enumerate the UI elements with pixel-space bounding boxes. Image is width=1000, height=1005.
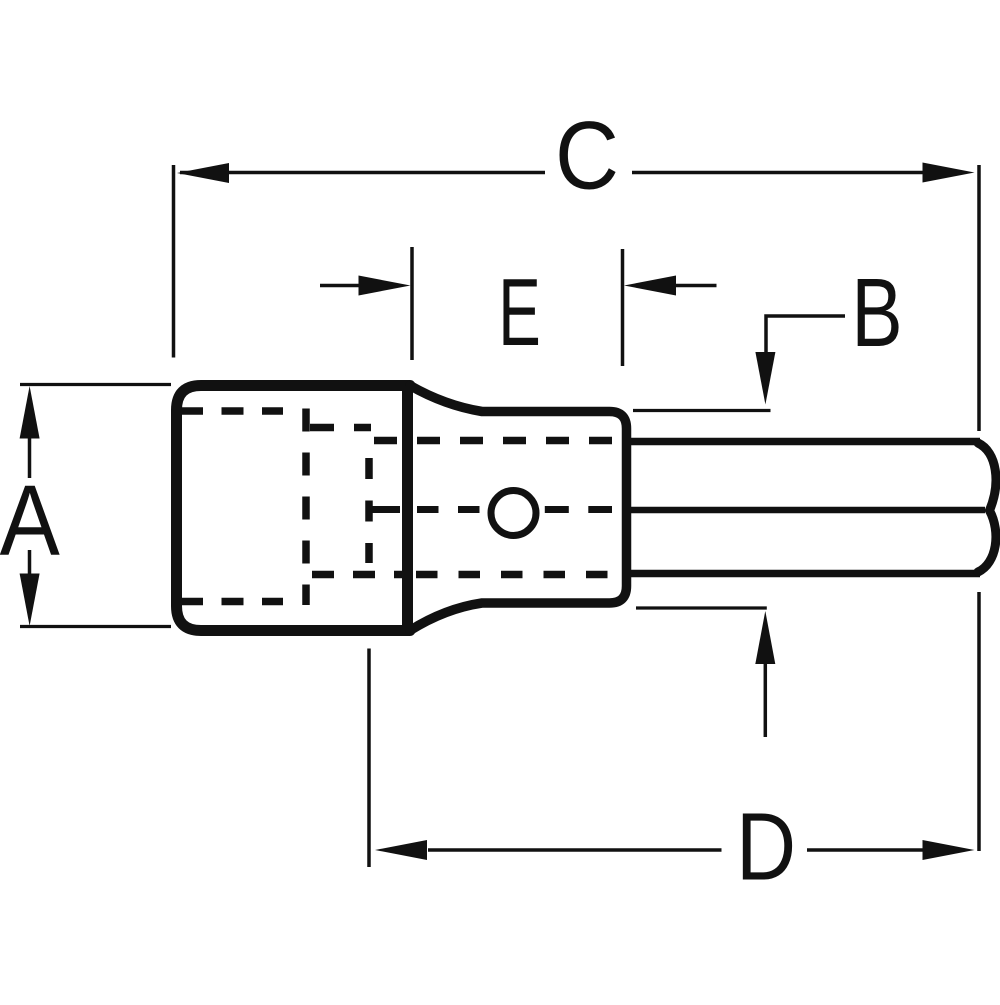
- label C: [555, 101, 619, 209]
- label A: [0, 465, 60, 576]
- hidden line: bore top: [310, 424, 371, 432]
- hex shaft top edge: [631, 438, 980, 446]
- label B: [851, 258, 902, 367]
- hidden line: square drive bottom: [181, 598, 283, 606]
- hidden line: square drive top: [181, 407, 283, 415]
- dimension C right arrowhead: [923, 163, 975, 183]
- dimension B bottom arrow (up): [755, 611, 775, 737]
- dimension D left arrowhead: [375, 840, 427, 860]
- dimension E left arrow: [320, 276, 411, 296]
- dimension A line: [28, 438, 32, 574]
- hidden line: bit bottom right part: [416, 571, 609, 579]
- dimension A top arrowhead: [20, 386, 40, 439]
- hidden line: bit bottom left part: [312, 571, 402, 579]
- svg-text:E: E: [498, 260, 541, 366]
- dimension E right arrow: [624, 276, 717, 296]
- hidden line: bit top: [374, 437, 612, 445]
- cross hole: [491, 491, 536, 536]
- dimension E extension line right: [621, 249, 625, 366]
- hidden line: square drive end vertical: [302, 409, 310, 606]
- hex shaft chamfered end: [978, 443, 996, 572]
- svg-text:D: D: [736, 793, 796, 899]
- dimension A bottom arrowhead: [20, 574, 40, 627]
- label D: [736, 793, 796, 899]
- hex shaft bottom edge: [631, 570, 980, 578]
- hidden line: bit end vertical: [365, 458, 373, 563]
- dimension A extension tick top: [20, 383, 171, 386]
- dimension A extension tick bottom: [20, 625, 171, 628]
- dimension C / D extension line right: [977, 165, 981, 851]
- dimension B top arrowhead (down): [755, 352, 775, 405]
- body right face edge: [402, 386, 413, 630]
- label E: [498, 260, 541, 366]
- dimension D extension line left: [367, 649, 371, 868]
- center line right of hole: [545, 506, 612, 513]
- dimension D right arrowhead: [923, 840, 975, 860]
- dimension C left arrowhead: [177, 163, 229, 183]
- hex shaft middle corner line: [631, 507, 985, 514]
- svg-text:C: C: [555, 101, 619, 209]
- dimension D line: [428, 848, 923, 852]
- dimension B leader line: [766, 316, 845, 352]
- socket body outline: [177, 386, 627, 631]
- dimension B top extension line: [633, 409, 771, 412]
- svg-text:A: A: [0, 465, 60, 576]
- svg-text:B: B: [851, 258, 902, 367]
- center line left of hole: [367, 506, 483, 513]
- dimension B bottom extension line: [636, 606, 767, 609]
- dimension C extension line left: [172, 165, 176, 358]
- dimension C line: [180, 171, 925, 175]
- dimension E extension line left: [410, 247, 414, 360]
